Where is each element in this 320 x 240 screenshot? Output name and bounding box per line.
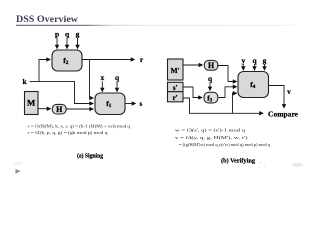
function block f3 — [204, 92, 218, 103]
wire H to f1 — [66, 108, 93, 110]
svg-text:g: g — [76, 29, 80, 38]
svg-text:= ((g(H(M')w) mod q y(r'w) mod: = ((g(H(M')w) mod q y(r'w) mod q) mod p)… — [179, 142, 271, 147]
faint watermark smudge — [14, 162, 23, 165]
wire M' to H — [183, 64, 203, 66]
svg-text:k: k — [22, 77, 27, 86]
svg-text:r = f2(k, p, q, g) = (gk mod p: r = f2(k, p, q, g) = (gk mod p) mod q — [28, 130, 109, 136]
svg-text:p: p — [55, 29, 59, 38]
wire f3 (w) to f4 — [219, 87, 237, 98]
function block f2 — [52, 50, 82, 71]
title underline — [16, 25, 295, 26]
block s' — [168, 82, 184, 91]
wire q into f2 — [66, 38, 68, 49]
svg-text:g: g — [263, 56, 267, 65]
svg-text:DSS Overview: DSS Overview — [16, 15, 78, 25]
wire q into f4 — [254, 64, 256, 70]
svg-text:w = f3(s', q) = (s')-1 mod q: w = f3(s', q) = (s')-1 mod q — [175, 128, 246, 134]
hash block H (signing) — [52, 104, 66, 114]
svg-text:M: M — [27, 98, 36, 108]
wire f1 output to s — [125, 103, 136, 105]
wire f4 output v down to Compare — [269, 86, 285, 109]
svg-text:q: q — [65, 29, 70, 38]
wire k to f1 (horizontal then down) — [30, 82, 94, 104]
svg-text:M′: M′ — [171, 66, 180, 75]
wire g into f2 — [77, 38, 79, 49]
svg-text:H: H — [56, 105, 63, 114]
svg-text:s′: s′ — [173, 84, 178, 92]
block M — [25, 92, 39, 115]
wire g into f4 — [264, 64, 266, 70]
hash block H (verifying) — [204, 60, 218, 70]
function block f1 — [95, 93, 125, 115]
faint smudge bottom right — [292, 163, 303, 167]
block M' — [168, 59, 184, 80]
faint confetti dots bottom left of verifying — [260, 162, 262, 164]
svg-text:r: r — [140, 55, 144, 64]
svg-text:y: y — [241, 56, 245, 65]
wire q into f1 — [116, 81, 118, 91]
svg-text:q: q — [252, 56, 257, 65]
wire r branch down into f1 — [90, 60, 94, 99]
svg-text:H: H — [208, 61, 215, 70]
block r' — [168, 92, 184, 102]
svg-text:q: q — [115, 73, 120, 82]
function block f4 — [238, 72, 269, 98]
wire p into f2 — [56, 38, 58, 49]
wire r' branch up into f4 — [233, 93, 237, 113]
svg-text:x: x — [100, 73, 104, 82]
svg-text:(b) Verifying: (b) Verifying — [221, 158, 255, 165]
wire x into f1 — [101, 81, 103, 91]
wire r' to Compare — [183, 98, 263, 113]
svg-text:v = f4(y, q, g, H(M'), w, r'): v = f4(y, q, g, H(M'), w, r') — [175, 135, 248, 141]
svg-text:s = f1(H(M), k, x, r, q) = (k-: s = f1(H(M), k, x, r, q) = (k-1 (H(M) + … — [28, 124, 131, 130]
wire s' into f3 — [183, 87, 202, 98]
svg-text:(a) Signing: (a) Signing — [77, 152, 103, 159]
wire y into f4 — [242, 64, 244, 70]
svg-text:Compare: Compare — [268, 111, 298, 119]
wire M to H — [38, 108, 51, 110]
svg-text:v: v — [287, 87, 291, 96]
slide nav play triangle — [15, 169, 20, 174]
wire f2 output to r — [82, 59, 135, 61]
svg-text:r′: r′ — [173, 94, 178, 102]
svg-text:s: s — [140, 99, 143, 108]
wire q into f3 — [209, 82, 211, 90]
svg-text:q: q — [208, 74, 213, 83]
wire k branch up into f2 — [39, 60, 50, 82]
wire H to f4 — [217, 66, 237, 82]
